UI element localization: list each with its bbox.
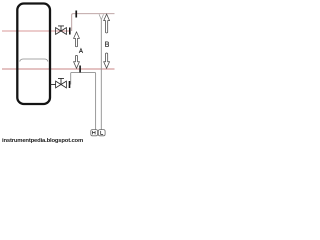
dimension arrow B up bbox=[104, 14, 110, 33]
isolation valve V1 stem bbox=[58, 26, 64, 31]
LP impulse line down to transmitter bbox=[100, 20, 102, 130]
transmitter HP port box bbox=[91, 130, 98, 136]
L label bbox=[101, 131, 103, 135]
flange tick after V2 bbox=[69, 81, 71, 88]
HP impulse line from lower valve to transmitter bbox=[71, 72, 96, 129]
isolation valve V2 stem bbox=[58, 78, 64, 84]
down arrowhead at top of LP impulse line bbox=[99, 14, 103, 19]
label B bbox=[105, 42, 108, 47]
flange tick after V1 bbox=[69, 28, 71, 35]
liquid level line bbox=[20, 59, 48, 62]
flange tick on HP line at lower reference bbox=[79, 66, 81, 73]
dimension arrow A down bbox=[74, 55, 80, 68]
tank T1 bbox=[17, 4, 50, 105]
upper tap reference line (red) bbox=[2, 30, 70, 32]
dimension arrow A up bbox=[74, 32, 80, 47]
lower tap reference line (red) bbox=[2, 68, 115, 70]
watermark caption bbox=[2, 138, 83, 144]
valve V2 inlet line bbox=[51, 84, 56, 86]
wet-leg riser and top line bbox=[72, 14, 115, 31]
isolation valve V1 body bbox=[56, 28, 67, 35]
isolation valve V2 body bbox=[56, 81, 67, 88]
dimension arrow B down bbox=[104, 53, 110, 68]
fill plug tee bbox=[75, 11, 77, 18]
transmitter LP port box bbox=[98, 130, 105, 136]
label A bbox=[79, 49, 83, 53]
H label bbox=[93, 131, 96, 135]
